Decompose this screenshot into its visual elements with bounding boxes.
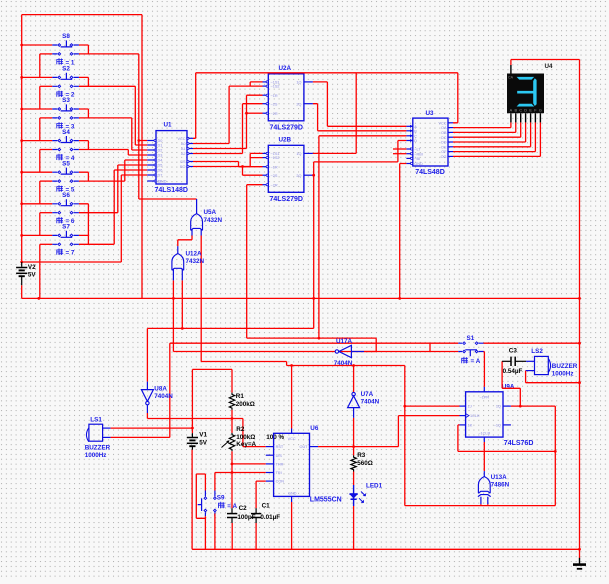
svg-text:1J: 1J [468,405,472,409]
display pin lead [510,113,512,122]
wire: U9A clear to U13A output [483,442,485,471]
capacitor C2 100pF [227,508,237,523]
node: junction on S8 riser at D0 row [137,139,140,142]
svg-text:B: B [514,108,517,112]
U1 pin D4 [147,159,156,161]
svg-text:100 %: 100 % [266,434,284,441]
wire: U1 A0 to U2A set inputs [193,82,263,144]
wire: THR row [232,463,266,465]
switch S7 (key 7) [20,170,147,298]
svg-text:LM555CN: LM555CN [310,497,342,504]
wire: left supply bus from V2 [21,15,23,262]
U2A pin ~1R [263,94,269,96]
wire: U1 EO to U2B set inputs [193,153,263,166]
svg-text:THR: THR [276,463,284,467]
svg-text:560Ω: 560Ω [357,460,373,467]
node: EO branch to U2B ~2S [241,165,244,168]
battery V1 5V [187,433,198,450]
svg-text:1Q: 1Q [296,81,301,85]
wire: V2 row to EI riser [22,261,122,263]
battery V2 5V [16,262,27,285]
wire: link between S1 rows [429,343,431,351]
U3 pin ~RBI [406,153,412,155]
U9A pin 1K [460,424,466,426]
svg-text:1CLK: 1CLK [470,414,480,418]
node: THR tap [231,463,234,466]
label key=1 [57,58,63,65]
U3 pin OD [448,141,453,143]
svg-text:74LS76D: 74LS76D [504,440,534,447]
svg-text:7432N: 7432N [204,217,223,224]
wire: U3 C feed down to inverter row [319,136,407,338]
svg-text:RST: RST [276,445,284,449]
IC U9A 74LS76D flip-flop [466,392,503,437]
svg-text:A0: A0 [181,142,186,146]
U2B pin ~2R [263,184,269,186]
inverter U17A 7404N [335,345,364,357]
wire: U1 A1 to U2A ~1R [193,95,263,148]
svg-text:74LS279D: 74LS279D [270,125,303,132]
wire: U3 OB to display segment [453,122,516,132]
svg-text:~1Q: ~1Q [494,424,501,428]
svg-text:~1R: ~1R [271,165,278,169]
svg-text:V2: V2 [28,264,36,271]
U2B pin ~1S1 [263,152,269,154]
svg-text:DIS: DIS [276,454,283,458]
U3 pin ~BI [406,157,412,159]
wire: 1K feedback loop [458,406,555,506]
svg-text:TRI: TRI [276,471,282,475]
svg-text:7486N: 7486N [491,482,510,489]
U3 pin A [406,125,412,127]
label key=3 [57,122,63,129]
svg-text:OD: OD [441,141,447,145]
svg-text:S3: S3 [62,97,70,104]
node: 2Q junction on feed row [318,337,321,340]
wire: U1 GS to U2B ~1R [193,162,263,167]
svg-text:= 7: = 7 [66,250,75,257]
svg-text:~2S: ~2S [271,102,278,106]
svg-text:U4: U4 [545,63,554,70]
wire: S9 bypass loop [196,474,206,518]
node: LS2 junction on right bus [578,381,581,384]
U2B pin ~1R [263,166,269,168]
U1 pin GS [187,161,193,163]
svg-text:G: G [539,108,542,112]
U1 pin D6 [147,169,156,171]
wire: U3 GND to ground row [400,164,407,299]
svg-text:S5: S5 [62,160,70,167]
svg-text:7404N: 7404N [154,393,173,400]
switch S3 (key 3) [20,104,147,150]
svg-text:S2: S2 [62,66,70,73]
svg-text:~1R: ~1R [271,94,278,98]
svg-text:EO: EO [180,165,186,169]
node: junction S-chain on GND row [37,297,40,300]
wire: C3 riser to 1Q [502,361,520,406]
wire: supply row y=361.5 [201,362,405,366]
svg-text:C1: C1 [262,503,271,510]
wire: J bus row [405,505,556,507]
buzzer LS2 [526,356,551,374]
U3 pin OC [448,136,453,138]
U9A pin 1CLK [460,415,466,417]
U6 pin GND [291,496,293,502]
svg-text:7432N: 7432N [186,258,205,265]
U2B pin ~1S2 [263,157,269,159]
svg-text:U2A: U2A [279,65,292,72]
svg-text:S6: S6 [62,192,70,199]
U6 pin TRI [266,472,274,474]
wire: 555 output row [318,416,459,447]
capacitor C1 0.01uF [251,508,261,523]
wire: LS1 lower pin row [103,436,111,438]
U1 pin A2 [187,153,193,155]
svg-text:R1: R1 [236,393,245,400]
U3 pin ~LT [406,148,412,150]
svg-text:74LS279D: 74LS279D [270,196,303,203]
resistor R1 200k [229,393,234,410]
svg-text:2Q: 2Q [296,102,301,106]
wire: U3 OD to display segment [453,122,526,142]
wire: R2 bottom to timing cap [231,451,233,508]
IC U2A 74LS279D latch [268,74,304,121]
svg-text:BUZZER: BUZZER [85,444,111,451]
wire: U5A right input down to supply row [200,236,202,362]
svg-text:D7: D7 [158,174,163,178]
wire: CON row [256,481,266,508]
svg-text:CA: CA [508,75,514,79]
svg-text:VCC: VCC [288,437,296,441]
U2B pin 2Q [304,174,313,176]
svg-text:~1S2: ~1S2 [271,85,280,89]
wire: J row to U9A [405,405,460,407]
label key=A (S9) [219,502,225,509]
svg-text:U5A: U5A [204,209,217,216]
svg-text:GND: GND [288,491,297,495]
display pin lead [539,113,541,122]
wire: riser to LS1 return [169,343,171,437]
svg-text:S8: S8 [62,33,70,40]
svg-text:100kΩ: 100kΩ [236,434,255,441]
potentiometer R2 100k [222,433,235,451]
svg-text:U3: U3 [426,110,435,117]
U6 pin CON [266,480,274,482]
svg-text:U12A: U12A [186,250,203,257]
wire: S9 left pole to ground bus [204,518,206,549]
U1 pin A0 [187,143,193,145]
U3 pin OB [448,131,453,133]
label key=4 [57,154,63,161]
svg-text:OB: OB [441,131,447,135]
svg-text:U8A: U8A [154,385,167,392]
U3 pin D [406,140,412,142]
U1 pin VCC [187,137,193,139]
wire: right vertical bus [579,60,581,559]
wire: U3 OG to display segment [453,122,540,156]
switch S5 (key 5) [20,160,147,204]
svg-text:74LS148D: 74LS148D [155,187,188,194]
wire: common-anode feed row [511,60,580,66]
U2A pin 1Q [304,81,313,83]
node: S1 junction on right bus [578,342,581,345]
wire: feed row to U17A input [247,338,377,351]
wire: U2A 2Q to U3 B [313,104,407,131]
svg-text:U13A: U13A [491,474,508,481]
node: 2Q tap [312,174,315,177]
wire: U2B 1Q riser to top row [313,73,356,154]
U9A pin 1Q [503,405,511,407]
svg-text:D6: D6 [158,169,163,173]
svg-text:1000Hz: 1000Hz [85,452,107,459]
svg-text:S4: S4 [62,129,70,136]
svg-text:B: B [414,129,417,133]
wire: V1 row y=369.4 [192,369,232,433]
svg-text:0.54µF: 0.54µF [503,368,523,375]
wire: U3 ~LT stub [393,148,406,150]
svg-text:200kΩ: 200kΩ [236,401,255,408]
node: U7A branch on output row [352,445,355,448]
wire: XOR inputs to J bus [481,504,488,505]
svg-text:D0: D0 [158,139,163,143]
svg-text:D3: D3 [158,154,163,158]
svg-text:OC: OC [441,136,447,140]
wire: U12A out to U5A input [178,236,192,247]
svg-text:LS2: LS2 [531,348,543,355]
svg-text:7404N: 7404N [361,399,380,406]
U1 pin D2 [147,149,156,151]
wire: U7A input from 555 out [353,418,355,456]
U1 pin EI [147,180,156,182]
node: TRI crossing [231,471,234,474]
node: feedback junction [554,450,557,453]
wire: S1 bottom to U9A preset [483,352,486,387]
wire: long vertical x=142 (top feed down to GND row) [141,15,143,299]
U1 pin D5 [147,164,156,166]
wire: bottom ground bus [192,548,579,550]
U1 pin A1 [187,148,193,150]
capacitor C3 0.54uF [502,357,526,366]
svg-text:VCC: VCC [177,137,185,141]
wire: drop to flip-flop J row [404,366,406,506]
svg-text:A2: A2 [181,152,186,156]
svg-text:OF: OF [441,150,447,154]
wire: S9 right pole to ground bus [214,514,216,550]
wire: 1Q row [511,405,555,407]
wire: R3 to LED1 [353,472,355,486]
svg-text:5V: 5V [28,272,37,279]
wire: EI riser x=121.3 [120,175,122,262]
svg-text:GND: GND [414,162,423,166]
U9A pin ~1PR [483,387,485,392]
U3 pin B [406,130,412,132]
svg-text:OA: OA [441,126,447,130]
svg-text:74LS48D: 74LS48D [415,169,445,176]
svg-text:A: A [414,125,417,129]
svg-text:1000Hz: 1000Hz [552,371,574,378]
U2B pin ~2S [263,174,269,176]
svg-text:LS1: LS1 [90,417,102,424]
label key=5 [57,185,63,192]
diode LED1 [350,485,367,506]
wire: U1 VCC riser [193,73,196,139]
node: bus junction at V2 top [20,261,23,264]
svg-text:GND: GND [158,180,167,184]
U2A pin ~1S1 [263,81,269,83]
U2A pin 2Q [304,103,313,105]
svg-text:D: D [414,139,417,143]
svg-text:OG: OG [441,155,447,159]
wire: U1 EI pin row [121,174,147,176]
U1 pin D3 [147,154,156,156]
wire: U3 VCC riser [453,73,458,123]
wire: U12A right input to latch row [181,280,183,328]
svg-text:C3: C3 [509,348,518,355]
svg-text:A: A [510,108,513,112]
svg-text:5V: 5V [199,440,208,447]
svg-text:U17A: U17A [336,338,353,345]
wire: link S6 lower pole to S7 [87,213,89,236]
svg-text:R2: R2 [236,426,245,433]
node: junction on latch row [181,327,184,330]
U6 pin VCC [291,429,293,434]
node: crossing GND row [312,297,315,300]
U2B pin 1Q [304,152,313,154]
svg-text:V1: V1 [199,432,207,439]
IC U2B 74LS279D latch [268,145,304,192]
node: V1 riser junction [191,427,194,430]
svg-text:~1CLR: ~1CLR [478,432,490,436]
U9A pin 1J [460,405,466,407]
node: J row junction [403,405,406,408]
U6 pin OUT [310,446,319,448]
display common anode pin [510,65,512,74]
node: A1 branch to U2A ~2R [245,112,248,115]
wire: LS1 top pin row [103,427,111,429]
U2A pin ~1S2 [263,85,269,87]
U1 pin D1 [147,144,156,146]
wire: U5A output row from S8 riser [139,141,197,200]
svg-text:D1: D1 [158,144,163,148]
wire: LS2 return to right bus [526,371,580,383]
svg-text:OE: OE [441,145,447,149]
switch S1 (key A) [458,342,483,356]
svg-text:~LT: ~LT [414,148,421,152]
U9A pin ~1CLR [483,437,485,442]
IC U3 74LS48D decoder [413,118,448,166]
svg-text:U7A: U7A [361,391,374,398]
IC U1 74LS148D priority encoder [156,131,187,184]
wire: U8A input riser [146,328,148,381]
wire: U6 GND to bus [291,502,293,549]
svg-text:S9: S9 [217,495,225,502]
wire: top feed from left bus to U1 column [22,14,142,16]
U3 pin VCC [448,122,453,124]
svg-text:S7: S7 [62,224,70,231]
svg-text:~2R: ~2R [271,183,278,187]
svg-text:C2: C2 [239,505,248,512]
svg-text:VCC: VCC [438,121,446,125]
node: U7A output tap [352,364,355,367]
svg-text:Key=A: Key=A [236,441,256,448]
label key=2 [57,91,63,98]
svg-text:OUT: OUT [299,445,308,449]
or-gate U12A 7432N [172,246,184,280]
svg-text:~BI: ~BI [414,157,420,161]
wire: U2B ~2R from latch feed riser [247,185,263,338]
node: GND row at U3 riser [398,297,401,300]
svg-text:C: C [414,134,417,138]
display pin lead [515,113,517,122]
switch S6 (key 6) [20,165,147,235]
U1 pin D0 [147,140,156,142]
svg-text:LED1: LED1 [366,482,383,489]
wire: R1 feed [231,369,233,392]
wire: latch row to S1 lower contact [173,351,458,353]
display U4 seven-segment [507,74,544,114]
wire: U3 OF to display segment [453,122,535,151]
svg-text:~2R: ~2R [271,112,278,116]
wire: inverted row to S1 upper contact [170,342,459,344]
svg-text:U6: U6 [310,425,319,432]
display pin lead [525,113,527,122]
U3 pin GND [406,163,412,165]
wire: GND row from V2 minus [22,285,580,298]
label key=6 [57,217,63,224]
node: R1 junction on reset row [231,417,234,420]
xor-gate U13A 7486N [478,471,491,504]
switch S4 (key 4) [20,136,147,172]
svg-text:~2S: ~2S [271,174,278,178]
svg-text:= A: = A [471,358,481,365]
switch S9 (key A) [198,473,217,519]
wire: VCC top row to U3 [196,72,458,74]
inverter U8A 7404N [141,382,153,413]
U6 pin RST [266,446,274,448]
wire: U3 ~RBI stub [393,153,406,155]
or-gate U5A 7432N [191,199,203,236]
wire: U2A 1Q to U3 A [313,82,407,126]
svg-text:U9A: U9A [502,383,515,390]
svg-text:A1: A1 [181,147,186,151]
wire: U3 OA to display segment [453,122,511,127]
wire: U3 OE to display segment [453,122,531,146]
U1 pin D7 [147,174,156,176]
node: C3 riser junction [519,405,522,408]
U3 pin OF [448,151,453,153]
svg-text:~1S2: ~1S2 [271,156,280,160]
display pin lead [534,113,536,122]
svg-text:R3: R3 [357,452,366,459]
U1 pin EO [187,166,193,168]
svg-text:~RBI: ~RBI [414,152,423,156]
svg-text:~1PR: ~1PR [479,395,489,399]
IC U6 LM555CN timer [274,433,310,496]
node: junction on GND row [172,297,175,300]
wire: latch output row [147,327,313,329]
resistor R3 560 [351,455,356,471]
node: ground bus at right bus [578,548,581,551]
svg-text:D2: D2 [158,149,163,153]
wire: U12A input riser x=174.5 [172,280,174,351]
ground [573,558,586,569]
U3 pin OA [448,127,453,129]
U3 pin OG [448,155,453,157]
wire: TRI row [215,472,266,474]
switch S2 (key 2) [20,73,147,145]
svg-text:D4: D4 [158,159,163,163]
svg-text:C: C [519,108,522,112]
